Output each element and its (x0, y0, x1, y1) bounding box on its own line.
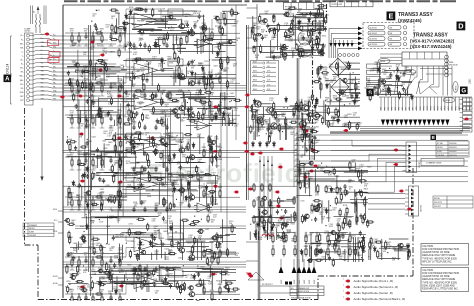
svg-text:MODEL: MODEL (434, 198, 440, 200)
node (96, 10, 97, 11)
node (92, 156, 93, 157)
svg-text:R767: R767 (123, 117, 127, 119)
wire (112, 270, 153, 272)
wire (67, 156, 112, 158)
wire (126, 186, 144, 188)
resistor Ra228 (143, 83, 145, 92)
resistor R6011 (78, 34, 80, 43)
svg-text:330: 330 (132, 86, 135, 88)
wire (301, 128, 315, 130)
resistor Ra50 (100, 202, 102, 211)
wire (101, 125, 103, 128)
wire (455, 97, 457, 111)
node (82, 76, 83, 77)
transformer T901 (298, 31, 312, 57)
wire (302, 113, 304, 130)
wire (185, 157, 218, 159)
wire (274, 111, 296, 113)
diode Dm25 (257, 222, 260, 228)
svg-text:0.22: 0.22 (106, 27, 110, 29)
resistor Rm115 (293, 106, 295, 115)
node (89, 97, 90, 98)
transistor Qm211 (261, 196, 267, 200)
wire (405, 209, 409, 211)
wire (339, 90, 341, 117)
svg-text:560: 560 (151, 246, 154, 248)
node (197, 20, 198, 21)
resistor Rp220 (317, 67, 319, 76)
resistor Ra724h (220, 273, 228, 275)
transistor Qa113 (138, 29, 144, 34)
wire (231, 109, 233, 126)
wire (208, 94, 210, 117)
resistor R195 (305, 247, 307, 257)
svg-text:R801: R801 (334, 246, 338, 248)
svg-text:R641: R641 (168, 188, 172, 190)
wire (119, 257, 121, 260)
svg-text:R741: R741 (338, 101, 342, 103)
node (216, 244, 217, 245)
node (185, 196, 186, 197)
wire (263, 107, 265, 118)
wire (181, 70, 183, 74)
caution box 1 (421, 244, 469, 266)
node (325, 100, 326, 101)
wire (296, 22, 324, 24)
wire (161, 240, 163, 258)
ground 6115 (109, 269, 114, 271)
wire (179, 175, 213, 177)
resistor Ra410 (120, 140, 122, 148)
wire (143, 145, 145, 156)
resistor Ra230 (220, 57, 222, 66)
resistor Ra134h (110, 39, 119, 41)
wire (158, 38, 160, 47)
svg-text:R701: R701 (103, 272, 107, 274)
svg-text:330: 330 (300, 36, 303, 38)
capacitor C605l2 (154, 125, 157, 130)
capacitor Ca430 (185, 145, 188, 150)
resistor Rb126 (336, 186, 338, 195)
wire (303, 17, 324, 19)
svg-text:C667: C667 (145, 118, 149, 120)
capacitor Ca227 (198, 80, 201, 85)
node (171, 175, 172, 176)
transistor Qa627 (64, 218, 70, 222)
svg-text:C641: C641 (102, 140, 106, 142)
wire (91, 100, 93, 119)
signal route dot 27 (277, 166, 282, 169)
wire (380, 63, 402, 65)
resistor Rp226 (320, 82, 322, 91)
svg-text:0.22: 0.22 (79, 126, 83, 128)
top middle table 2 (330, 1, 373, 7)
svg-text:1/2W: 1/2W (267, 238, 271, 240)
wire (78, 267, 80, 270)
capacitor C601l1 (143, 43, 146, 48)
svg-text:330: 330 (184, 23, 187, 25)
transistor Q951 (300, 105, 308, 112)
wire (166, 42, 168, 45)
svg-text:SP3: SP3 (391, 107, 393, 110)
wire (135, 283, 137, 292)
wire (144, 166, 146, 169)
wire (101, 304, 103, 306)
wire (43, 6, 45, 25)
wire (300, 25, 324, 27)
signal route dot 16 (212, 185, 217, 188)
wire (133, 166, 135, 169)
resistor Ra712 (66, 265, 68, 274)
svg-text:SP11: SP11 (420, 106, 422, 110)
wire (294, 16, 296, 45)
resistor R6036 (119, 84, 121, 93)
resistor Ra316 (198, 111, 200, 120)
transistor Qm213 (261, 210, 267, 215)
wire (420, 68, 452, 70)
wire 613 feedback (126, 270, 161, 281)
wire (71, 93, 73, 96)
svg-text:C615: C615 (76, 273, 80, 275)
resistor Rb217 (315, 248, 317, 257)
wire (273, 200, 295, 202)
wire (95, 216, 118, 218)
wire (117, 133, 141, 135)
node (71, 156, 72, 157)
transistor Qa325 (171, 109, 177, 114)
wire (270, 128, 296, 130)
capacitor Ca511 (98, 177, 101, 182)
wire (166, 206, 168, 209)
capacitor Cp136 (309, 11, 312, 16)
svg-text:R641: R641 (284, 15, 288, 17)
svg-text:SW+: SW+ (53, 42, 57, 44)
svg-text:C633: C633 (358, 238, 362, 240)
wire (128, 48, 186, 50)
wire (252, 90, 262, 92)
capacitor Ca521 (78, 183, 81, 188)
resistor R6136 (119, 295, 121, 304)
diode Dp216 (326, 83, 329, 89)
wire (219, 19, 221, 27)
svg-text:100: 100 (211, 222, 214, 224)
node (211, 271, 212, 272)
wire (110, 115, 112, 118)
wire (460, 116, 463, 118)
wire (90, 217, 92, 242)
capacitor Cp18 (268, 28, 271, 33)
resistor Ra711 (183, 282, 185, 291)
capacitor C6032 (84, 84, 87, 89)
capacitor Ca211 (81, 69, 84, 74)
svg-text:560: 560 (291, 241, 294, 243)
svg-text:C701: C701 (331, 189, 335, 191)
svg-text:SPEAKER: SPEAKER (29, 224, 38, 227)
wire (211, 271, 213, 290)
svg-text:(2ND SIDE): (2ND SIDE) (449, 65, 458, 67)
ground 6016 (118, 45, 123, 47)
node (78, 256, 79, 257)
svg-text:1/2W: 1/2W (165, 259, 169, 261)
resistor R611r1 (211, 255, 213, 264)
capacitor C609l3 (165, 207, 168, 212)
capacitor Ca523 (147, 171, 150, 176)
diode D921 (266, 141, 269, 147)
svg-text:R615: R615 (139, 39, 143, 41)
svg-text:CN114: CN114 (6, 64, 10, 74)
section marker G (460, 87, 468, 95)
svg-text:R655: R655 (127, 265, 131, 267)
wire (155, 161, 206, 163)
svg-text:SP4: SP4 (395, 107, 397, 110)
svg-text:P8 P9 FU SW: P8 P9 FU SW (332, 4, 343, 6)
wire (305, 243, 359, 245)
resistor R6051 (78, 116, 80, 125)
wire (193, 240, 195, 251)
legend route dot 4 (345, 298, 350, 301)
ground 6116 (118, 269, 123, 271)
pin 7 CN114 (27, 58, 30, 61)
svg-text:C627: C627 (302, 126, 306, 128)
svg-text:330: 330 (137, 77, 140, 79)
wire (78, 83, 80, 86)
capacitor C6092 (84, 198, 87, 203)
node (130, 233, 131, 234)
wire (71, 125, 73, 128)
resistor Ra117h (232, 12, 240, 14)
wire (343, 40, 345, 43)
resistor Ra435 (147, 153, 149, 162)
wire (252, 62, 262, 64)
wire (203, 70, 205, 86)
svg-text:SP10: SP10 (416, 106, 418, 110)
wire (272, 52, 284, 54)
resistor R605r0 (203, 107, 205, 116)
resistor Ra312 (169, 91, 171, 101)
svg-text:C603: C603 (99, 247, 103, 249)
wire (90, 25, 92, 296)
svg-text:R733: R733 (174, 180, 178, 182)
wire (185, 99, 187, 110)
resistor R6110 (71, 258, 73, 267)
wire (63, 209, 246, 211)
wire (92, 33, 94, 36)
resistor Rb30 (385, 240, 387, 249)
wire (144, 266, 146, 269)
svg-text:560: 560 (121, 272, 124, 274)
resistor Rp225 (349, 121, 351, 130)
svg-text:R627: R627 (176, 101, 180, 103)
node (92, 32, 93, 33)
resistor R6071 (78, 158, 80, 167)
resistor R601r2 (219, 25, 221, 34)
resistor Rm110 (285, 117, 287, 125)
svg-text:R703: R703 (129, 7, 133, 9)
resistor Ra318 (91, 94, 93, 103)
capacitor Ca45 (119, 164, 122, 169)
wire (144, 206, 146, 209)
svg-text:330: 330 (134, 206, 137, 208)
signal route dot 31 (398, 190, 403, 193)
wire (125, 73, 127, 83)
svg-text:SW-: SW- (20, 47, 24, 49)
wire (294, 176, 468, 178)
wire (348, 78, 360, 80)
ground 6091 (77, 209, 82, 211)
svg-text:R733: R733 (184, 114, 188, 116)
node (123, 66, 124, 67)
node (205, 255, 206, 256)
resistor Rp229 (316, 97, 318, 105)
resistor Ra324 (161, 118, 163, 126)
wire (40, 98, 108, 101)
resistor Rb112 (333, 167, 335, 175)
wire (381, 78, 392, 80)
wire (123, 181, 176, 183)
wire (368, 203, 405, 205)
svg-text:R755: R755 (101, 181, 105, 183)
wire (161, 243, 176, 245)
resistor Rm17 (272, 109, 274, 118)
ground 6031 (77, 95, 82, 97)
pin 3 CN114 (27, 42, 30, 45)
wire (249, 232, 251, 240)
wire (203, 15, 205, 30)
resistor Ra144h (122, 22, 130, 24)
svg-text:560: 560 (334, 253, 337, 255)
wire (71, 115, 73, 118)
wire (119, 43, 121, 46)
wire (280, 259, 282, 266)
relay column right (367, 64, 381, 68)
svg-text:MPC BY LITTELFUSE INC.: MPC BY LITTELFUSE INC. (422, 260, 452, 263)
transistor Q903 (255, 117, 263, 123)
wire (252, 122, 254, 130)
wire (327, 101, 359, 103)
wire (318, 5, 320, 14)
wire (252, 80, 262, 82)
wire (299, 161, 301, 183)
svg-text:C633: C633 (187, 243, 191, 245)
svg-text:Audio Signal Route (Front L ,R: Audio Signal Route (Front L ,R) (354, 279, 394, 283)
resistor Rb211 (334, 242, 336, 252)
capacitor C603l3 (165, 93, 168, 98)
wire (197, 268, 224, 270)
wire (247, 37, 258, 39)
resistor R6016 (119, 34, 121, 43)
node (92, 82, 93, 83)
wire (437, 97, 439, 111)
wire (301, 162, 313, 164)
diode Dm13 (253, 98, 256, 104)
wire (209, 79, 211, 86)
wire (304, 142, 306, 156)
diode Da112 (129, 9, 132, 15)
svg-text:C601: C601 (325, 15, 329, 17)
svg-text:R801: R801 (348, 217, 352, 219)
resistor R6134 (101, 295, 103, 304)
wire (326, 120, 341, 122)
wire (247, 17, 258, 19)
wire (30, 6, 32, 25)
wire (360, 126, 470, 128)
svg-text:DET: DET (53, 94, 56, 96)
capacitor Ca51 (81, 174, 84, 179)
wire (324, 104, 326, 125)
node (99, 219, 100, 220)
svg-text:B: B (432, 135, 435, 140)
node (191, 193, 192, 194)
svg-text:560: 560 (109, 128, 112, 130)
wire (266, 71, 276, 73)
svg-text:SW-: SW- (53, 46, 57, 48)
resistor Rb147 (340, 193, 342, 202)
wire (76, 244, 78, 253)
node (119, 156, 120, 157)
transistor Q605a (178, 106, 185, 111)
resistor Ra327h (171, 99, 179, 101)
svg-text:C655: C655 (214, 47, 218, 49)
wire (287, 16, 300, 18)
wire (409, 52, 411, 59)
ground 6052 (84, 127, 89, 129)
svg-text:1/2W: 1/2W (308, 179, 312, 181)
wire (71, 304, 73, 306)
resistor Ra513h (203, 173, 211, 175)
resistor Ra643 (217, 240, 219, 249)
wire (85, 197, 87, 200)
node (349, 103, 350, 104)
wire (122, 231, 147, 233)
svg-text:C655: C655 (69, 118, 73, 120)
capacitor Ca56 (173, 203, 176, 208)
left option table (23, 223, 54, 237)
wire (85, 207, 87, 210)
wire (124, 27, 126, 38)
wire (416, 97, 418, 111)
svg-text:0.22: 0.22 (120, 34, 124, 36)
wire (357, 237, 359, 256)
svg-text:C703: C703 (97, 76, 101, 78)
resistor R6113 (92, 258, 94, 267)
capacitor Ca718 (113, 263, 116, 268)
svg-text:C641: C641 (365, 193, 369, 195)
wire (78, 93, 80, 96)
svg-text:C615: C615 (175, 107, 179, 109)
resistor Ra726 (109, 273, 111, 281)
resistor Ra528 (119, 190, 121, 198)
node (126, 243, 127, 244)
node (321, 163, 322, 164)
capacitor Ca235 (187, 61, 190, 66)
signal route dot 1 (89, 41, 94, 44)
svg-text:SP21: SP21 (455, 106, 457, 110)
wire (40, 51, 132, 53)
node (71, 256, 72, 257)
wire (101, 83, 103, 86)
wire (424, 52, 426, 59)
wire (384, 97, 386, 111)
transistor Qa17 (201, 25, 207, 29)
svg-text:R655: R655 (208, 265, 212, 267)
diode Da530 (185, 195, 188, 201)
wire (103, 60, 105, 87)
capacitor C6055 (109, 116, 112, 121)
wire (347, 40, 349, 43)
capacitor Cm42 (305, 147, 308, 152)
resistor Ra11 (152, 8, 154, 17)
capacitor C601l3 (165, 43, 168, 48)
